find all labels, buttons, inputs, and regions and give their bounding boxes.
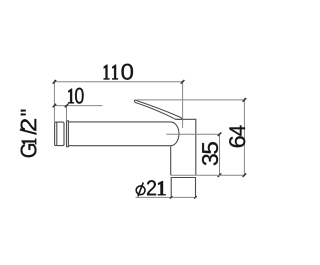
dim 64: dimension line bbox=[243, 98, 245, 175]
tube end cap arc bbox=[171, 122, 179, 146]
dim 35: extension line from tube axis bbox=[166, 133, 219, 135]
dim phi21: dimension line at nozzle mouth bbox=[136, 196, 197, 198]
flange ring bbox=[67, 121, 69, 147]
dim phi21: tick left bbox=[170, 196, 173, 199]
dim 110: tick left bbox=[53, 80, 57, 84]
thread G1/2 male end bbox=[55, 122, 64, 146]
dim 35: dimension line bbox=[219, 134, 221, 175]
dim 64: top extension line from handle tip level bbox=[137, 99, 245, 101]
dim 64: tick top bbox=[243, 98, 247, 102]
dim 64: tick bottom bbox=[243, 173, 247, 177]
dim text 64 (rotated) bbox=[229, 126, 245, 148]
bottom extension line from body bottom bbox=[171, 174, 245, 176]
outlet body bbox=[171, 119, 196, 175]
dim 35: tick bottom bbox=[218, 173, 222, 177]
dim text 110 bbox=[104, 64, 133, 80]
dim 110: tick right bbox=[181, 80, 185, 84]
dim text 10 bbox=[68, 88, 83, 104]
dim 10: tick right bbox=[65, 104, 69, 108]
dim 110: right extension line bbox=[182, 81, 184, 129]
dim text phi symbol bbox=[136, 182, 145, 196]
dim phi21: tick right bbox=[194, 196, 197, 199]
dim 35: tick top bbox=[218, 132, 222, 136]
spout tube top edge bbox=[68, 121, 170, 123]
dim 110: left extension line bbox=[53, 80, 55, 122]
dim 10: dimension line bbox=[54, 105, 102, 107]
dim 10: right extension line bbox=[66, 106, 68, 121]
dim 110: dimension line bbox=[54, 81, 182, 83]
dim 10: tick left bbox=[53, 104, 57, 108]
spout tube bottom edge bbox=[68, 145, 170, 147]
lever handle bbox=[134, 100, 182, 119]
thread label G1/2" (rotated) bbox=[20, 110, 36, 158]
dim text 21 bbox=[147, 180, 166, 195]
aerator nozzle bbox=[171, 178, 195, 198]
dim text 35 (rotated) bbox=[202, 142, 218, 165]
